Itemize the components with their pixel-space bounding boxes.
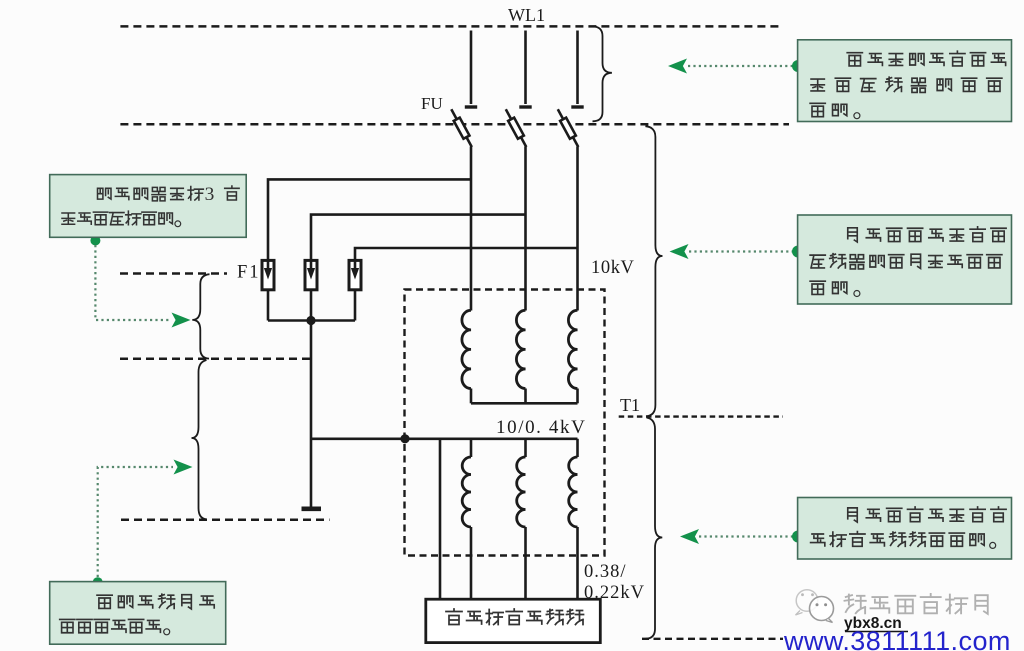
callout box right 1 text [810, 51, 1006, 118]
wire arrester 3 to earth bus [354, 291, 357, 321]
fuse FU phase B (drop-out cutout) [506, 109, 527, 147]
callout arrow left 1 [172, 313, 191, 328]
callout arrow right 2 [670, 244, 689, 259]
watermark url [783, 626, 1011, 651]
callout dotted link right 2 [689, 250, 795, 252]
watermark site name [845, 594, 988, 614]
bus fused feeder (dashed) [120, 123, 789, 126]
svg-text:10kV: 10kV [591, 258, 635, 278]
watermark wechat logo [796, 590, 834, 623]
callout arrow right 3 [680, 529, 699, 544]
junction dot arrester earth bus [306, 316, 315, 325]
brace high-voltage drop section [592, 26, 612, 121]
wire arrester earth bus [268, 319, 355, 322]
bottom dashed line [642, 638, 783, 640]
label 10kV [591, 258, 635, 278]
ground electrode bar [302, 506, 322, 511]
wire secondary winding C to LV box [576, 527, 579, 600]
wire drop phase A from WL1 [470, 31, 473, 105]
terminal bar phase C [571, 105, 583, 108]
brace high-voltage connection section [645, 126, 662, 416]
svg-text:0.38/: 0.38/ [584, 562, 627, 582]
left dashed line (line span 3) [121, 519, 330, 522]
svg-text:3: 3 [205, 184, 215, 205]
svg-text:FU: FU [421, 94, 443, 113]
wire arrester 1 tap [268, 179, 471, 259]
svg-text:www.3811111.com: www.3811111.com [783, 626, 1011, 651]
surge arrester F1-3 [349, 260, 361, 289]
left dashed line (line span 2) [120, 358, 310, 361]
wire secondary winding A to LV box [470, 527, 473, 600]
low-voltage distribution box [426, 599, 601, 642]
callout box right 3 [798, 498, 1012, 560]
callout dot left 2 [93, 577, 103, 587]
wire primary star bus [471, 402, 578, 405]
fuse FU label [421, 94, 443, 113]
wire earth down-lead [310, 321, 313, 507]
wire secondary neutral bus and earthing link [311, 437, 578, 440]
wire primary winding C to star bus [576, 389, 579, 404]
fuse FU phase A (drop-out cutout) [451, 109, 472, 147]
wire arrester 2 to earth bus [310, 291, 313, 321]
wire primary winding B to star bus [524, 389, 527, 404]
wire arrester 3 tap [355, 248, 578, 260]
net WL1 label [508, 5, 545, 25]
callout dotted link right 3 [699, 535, 795, 537]
watermark ybx8.cn [844, 615, 908, 632]
callout dotted link right 1 [688, 65, 795, 67]
transformer T1 label [620, 395, 640, 415]
callout arrow right 1 [668, 59, 687, 74]
callout dotted link left 2 [98, 467, 173, 577]
label 0.38/0.22kV [584, 562, 645, 603]
callout box right 3 text [811, 507, 1007, 548]
brace arrester connection span [192, 274, 209, 358]
transformer secondary winding phase C [569, 457, 578, 527]
left dashed line (line span 1) [120, 272, 227, 275]
wire secondary bus to winding C [576, 439, 579, 457]
terminal bar phase A [465, 105, 477, 108]
transformer primary winding phase B [516, 310, 525, 388]
svg-text:T1: T1 [620, 395, 640, 415]
label 10/0.4kV [496, 417, 586, 438]
wire arrester 2 tap [311, 215, 526, 260]
svg-text:WL1: WL1 [508, 5, 545, 25]
callout dot left 1 [90, 236, 100, 246]
arrester F1 label [237, 263, 261, 283]
callout box left 1 [50, 175, 247, 238]
transformer primary winding phase A [462, 310, 471, 388]
junction dot neutral-earth [400, 434, 409, 443]
callout dot right 1 [792, 60, 804, 72]
wire secondary bus to winding B [524, 439, 527, 457]
callout box right 1 [798, 40, 1012, 122]
transformer secondary winding phase A [462, 457, 471, 527]
wire drop phase C from WL1 [576, 31, 579, 105]
callout box right 2 [798, 215, 1012, 304]
callout box left 1 text [62, 184, 239, 227]
label LV distribution box text [446, 609, 584, 625]
transformer T1 enclosure (dashed) [405, 290, 605, 556]
callout box right 2 text [810, 227, 1006, 297]
wire primary winding A to star bus [470, 389, 473, 404]
wire phase A fuse to transformer [470, 147, 473, 311]
brace earthing span [192, 360, 207, 519]
T1 boundary dashed line [619, 415, 783, 417]
callout box left 2 text [60, 594, 215, 635]
callout box left 2 [50, 582, 226, 645]
callout dot right 3 [792, 531, 804, 543]
bus WL1 (high-voltage overhead line, dashed) [120, 25, 783, 28]
wire phase B fuse to transformer [524, 147, 527, 311]
svg-text:F1: F1 [237, 263, 261, 283]
wire phase C fuse to transformer [576, 147, 579, 311]
fuse FU phase C (drop-out cutout) [558, 109, 579, 147]
svg-text:10/0. 4kV: 10/0. 4kV [496, 417, 586, 438]
callout arrow left 2 [174, 460, 193, 475]
transformer secondary winding phase B [517, 457, 526, 527]
wire secondary winding B to LV box [524, 527, 527, 600]
wire drop phase B from WL1 [524, 31, 527, 105]
callout dot right 2 [792, 246, 804, 258]
wire secondary bus to winding A [470, 439, 473, 457]
surge arrester F1-2 [305, 260, 317, 289]
brace low-voltage connection section [646, 418, 663, 639]
callout dotted link left 1 [95, 245, 170, 320]
transformer primary winding phase C [568, 310, 577, 388]
wire arrester 1 to earth bus [267, 291, 270, 321]
surge arrester F1-1 [262, 260, 274, 289]
terminal bar phase B [519, 105, 531, 108]
wire neutral N to LV box [439, 439, 442, 600]
